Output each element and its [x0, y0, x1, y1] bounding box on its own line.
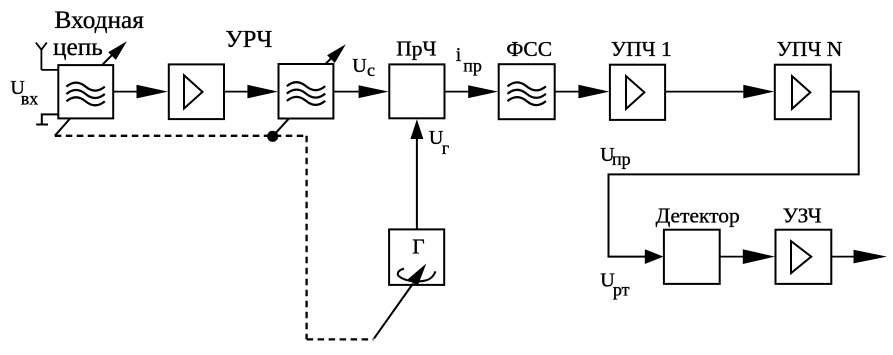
wire + arrow filter 2 to ПрЧ: [333, 85, 388, 98]
label U_г: [429, 127, 449, 158]
tuning arrow into Г: [374, 264, 436, 339]
svg-text:пр: пр: [612, 149, 631, 169]
block Входная цепь (tunable bandpass filter): [58, 65, 113, 118]
block УПЧ 1 (amplifier): [610, 65, 665, 120]
svg-text:УПЧ N: УПЧ N: [777, 37, 843, 61]
wire antenna to block Входная цепь: [41, 69, 58, 71]
svg-text:ПрЧ: ПрЧ: [396, 37, 436, 61]
svg-text:U: U: [352, 55, 367, 77]
svg-text:ФСС: ФСС: [506, 37, 552, 61]
svg-text:вх: вх: [21, 89, 39, 109]
wire + arrow Детектор to УЗЧ: [720, 249, 775, 264]
tuning arrow on Входная цепь: [103, 41, 127, 64]
antenna: [36, 43, 47, 70]
svg-text:УЗЧ: УЗЧ: [783, 204, 822, 228]
arrowhead into Детектор: [645, 249, 664, 264]
ground: [36, 114, 58, 124]
svg-text:Г: Г: [412, 234, 424, 258]
svg-text:Входная: Входная: [55, 6, 145, 34]
block Детектор: [664, 230, 720, 284]
svg-text:УПЧ 1: УПЧ 1: [611, 37, 672, 61]
block Г (local oscillator): [389, 229, 444, 285]
svg-text:i: i: [456, 44, 462, 66]
label U_пр: [600, 144, 631, 169]
block ПрЧ (mixer): [389, 64, 444, 118]
wire + arrow ФСС to УПЧ 1: [555, 85, 610, 99]
dashed gang line horizontal: [55, 135, 307, 137]
label U_вх: [10, 77, 38, 108]
svg-text:Детектор: Детектор: [656, 204, 740, 228]
wire + arrow УПЧ 1 to УПЧ N: [665, 85, 774, 99]
block tunable filter 2: [279, 64, 334, 119]
wire + arrow УРЧ to tunable filter: [224, 85, 278, 99]
block УРЧ (amplifier): [169, 64, 224, 119]
wire + arrow ПрЧ to ФСС: [445, 85, 499, 98]
wire УПЧ N to Детектор (feedback path down): [609, 92, 859, 257]
block ФСС (filter): [499, 64, 555, 119]
svg-text:с: с: [367, 60, 375, 80]
wire + arrow Г to ПрЧ (U_г): [410, 119, 423, 229]
label U_c: [352, 55, 375, 80]
svg-text:рт: рт: [613, 280, 630, 300]
label i_пр: [456, 44, 482, 76]
block УПЧ N (amplifier): [775, 65, 831, 120]
gang diagonal from filter 2 to junction: [273, 118, 289, 136]
wire + output arrow from УЗЧ: [831, 250, 887, 264]
svg-text:г: г: [442, 138, 449, 158]
wire + arrow Входная цепь to УРЧ: [113, 85, 168, 99]
svg-text:пр: пр: [463, 56, 482, 76]
junction dot: [267, 131, 278, 142]
svg-text:УРЧ: УРЧ: [225, 26, 272, 53]
dashed gang line bottom: [307, 338, 374, 340]
gang diagonal from Входная цепь: [55, 119, 70, 136]
svg-text:цепь: цепь: [53, 33, 103, 61]
tuning arrow on filter 2: [325, 44, 345, 64]
label U_рт: [600, 269, 629, 299]
block УЗЧ (amplifier): [776, 230, 832, 284]
label Входная цепь: [53, 6, 144, 61]
dashed gang line vertical: [305, 136, 307, 340]
